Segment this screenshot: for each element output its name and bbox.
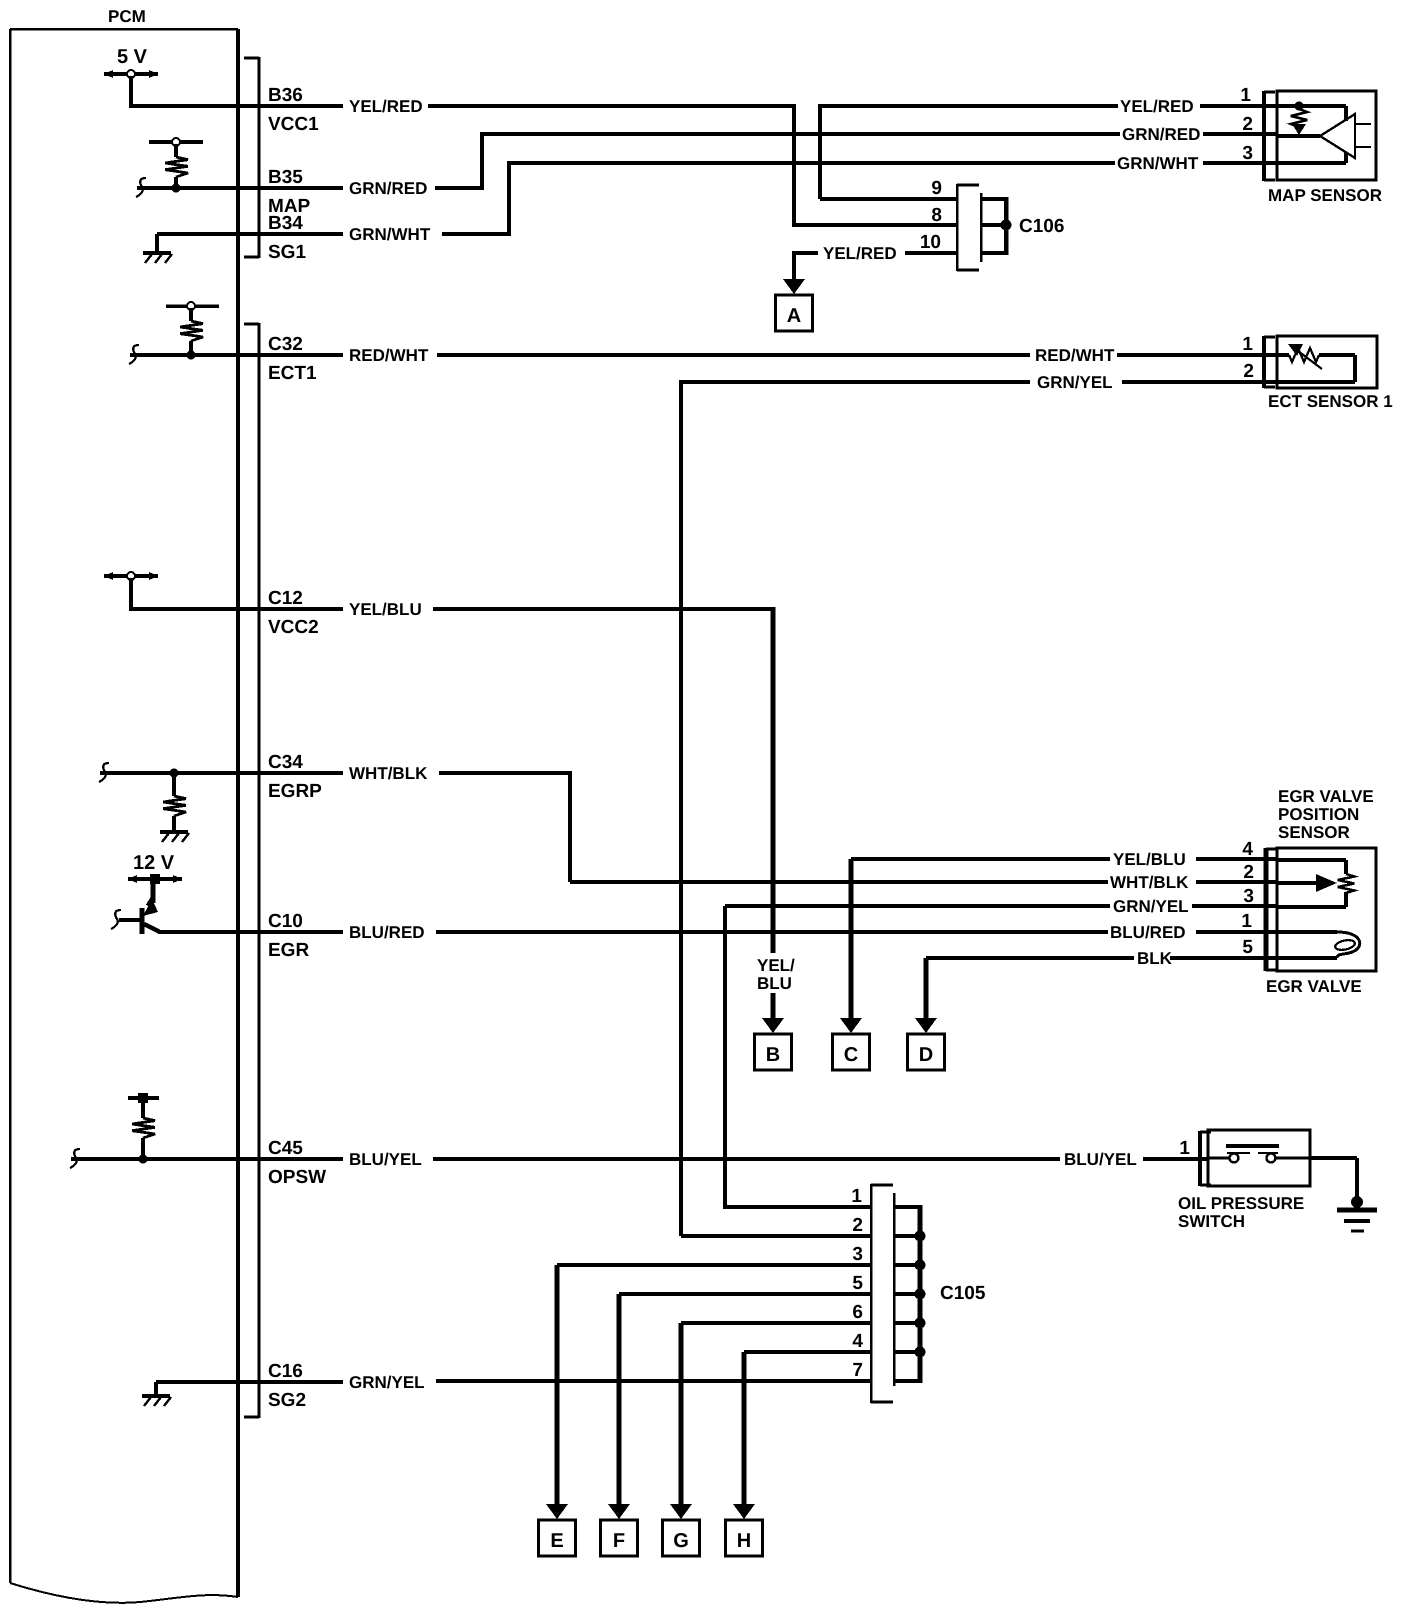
pin MAP label	[268, 196, 311, 217]
svg-text:BLU/RED: BLU/RED	[1110, 923, 1186, 942]
svg-text:1: 1	[851, 1186, 862, 1207]
wire C12 to PCM edge	[129, 578, 238, 609]
OIL PRESSURE SWITCH label	[1178, 1194, 1304, 1231]
svg-text:GRN/WHT: GRN/WHT	[1117, 154, 1199, 173]
wire continuation squiggle (C34)	[99, 763, 109, 782]
svg-text:1: 1	[1241, 911, 1252, 932]
pin C32 label	[268, 334, 303, 355]
wire GRN/WHT riser to MAP row	[509, 161, 1115, 236]
label BLU/YEL (switch)	[1064, 1150, 1137, 1169]
wire RED/WHT into ECT pin 1	[1117, 353, 1277, 357]
wire B36 YEL/RED to junction	[238, 104, 796, 108]
svg-text:RED/WHT: RED/WHT	[1035, 346, 1115, 365]
EGR pin 5 number	[1242, 937, 1253, 958]
svg-text:2: 2	[1243, 361, 1254, 382]
reference box G	[663, 1520, 700, 1556]
reference box B	[755, 1034, 792, 1070]
svg-text:POSITION: POSITION	[1278, 805, 1359, 824]
svg-text:ECT1: ECT1	[268, 363, 317, 384]
MAP pin 1 number	[1240, 85, 1251, 106]
ground (SG2)	[142, 1382, 238, 1406]
wire YEL/RED stub to A	[794, 251, 818, 280]
svg-text:GRN/YEL: GRN/YEL	[1037, 373, 1113, 392]
label GRN/WHT (B34)	[349, 225, 431, 244]
label C105	[940, 1283, 986, 1304]
ECT sensor box	[1277, 336, 1377, 388]
pin B35 label	[268, 167, 303, 188]
svg-text:SG2: SG2	[268, 1390, 306, 1411]
svg-text:3: 3	[852, 1244, 863, 1265]
svg-text:YEL/BLU: YEL/BLU	[349, 600, 422, 619]
svg-text:ECT SENSOR 1: ECT SENSOR 1	[1268, 392, 1393, 411]
svg-text:MAP SENSOR: MAP SENSOR	[1268, 186, 1382, 205]
wire switch to ground	[1310, 1158, 1357, 1198]
C106 pin 10 number	[920, 232, 941, 253]
label GRN/YEL (C16)	[349, 1373, 425, 1392]
label BLU/RED (C10)	[349, 923, 425, 942]
label WHT/BLK (C34)	[349, 764, 428, 783]
ECT pin 1 number	[1242, 334, 1253, 355]
svg-text:4: 4	[1242, 839, 1253, 860]
svg-text:12 V: 12 V	[133, 852, 175, 874]
label YEL/BLU (EGR pin 4)	[1113, 850, 1186, 869]
PCM box (outline with torn wavy bottom)	[10, 29, 238, 1603]
svg-text:4: 4	[852, 1331, 863, 1352]
wire YEL/RED down to C106 pin 8	[792, 104, 956, 225]
svg-text:SG1: SG1	[268, 242, 306, 263]
reference box A	[776, 295, 813, 331]
wire B34 GRN/WHT	[238, 232, 509, 236]
svg-text:C34: C34	[268, 752, 303, 773]
label GRN/RED (MAP pin 2)	[1122, 125, 1200, 144]
pin EGR label	[268, 940, 309, 961]
EGR pin 3 number	[1243, 886, 1254, 907]
pin VCC1 label	[268, 114, 319, 135]
svg-text:A: A	[787, 305, 801, 327]
wire continuation squiggle (transistor base)	[111, 910, 121, 929]
C105 pin 7 number	[852, 1360, 863, 1381]
svg-text:YEL/RED: YEL/RED	[823, 244, 897, 263]
MAP pin 3 number	[1242, 143, 1253, 164]
svg-text:EGR VALVE: EGR VALVE	[1278, 787, 1374, 806]
MAP sensor internal amplifier	[1277, 106, 1371, 163]
wire YEL/RED into MAP pin 1	[1200, 104, 1277, 108]
EGR valve position sensor potentiometer	[1277, 860, 1354, 907]
svg-text:H: H	[737, 1530, 751, 1552]
svg-text:BLK: BLK	[1137, 949, 1173, 968]
reference box D	[908, 1034, 945, 1070]
wire C45 BLU/YEL	[71, 1157, 1060, 1161]
wire GRN/WHT into MAP pin 3	[1203, 161, 1277, 165]
svg-text:3: 3	[1243, 886, 1254, 907]
label BLU/YEL (C45)	[349, 1150, 422, 1169]
C105 left-side pin wires	[436, 1207, 871, 1381]
wire BLU/YEL into oil pressure switch	[1143, 1157, 1208, 1161]
pull-up resistor (B35)	[149, 138, 203, 193]
pin C16 label	[268, 1361, 303, 1382]
EGR valve connector bracket	[1266, 848, 1277, 971]
node C106 pin 8 number	[931, 205, 942, 226]
connector C106 symbol	[957, 184, 981, 271]
pin C45 label	[268, 1138, 303, 1159]
wire WHT/BLK jog down	[570, 771, 1108, 882]
svg-text:E: E	[550, 1530, 563, 1552]
label YEL/RED (B36)	[349, 97, 423, 116]
svg-text:9: 9	[931, 178, 942, 199]
pull-up resistor (C45)	[128, 1093, 159, 1164]
arrowhead to A	[783, 279, 805, 294]
wire C16 GRN/YEL to C105 pin 7	[238, 1380, 343, 1384]
svg-text:C45: C45	[268, 1138, 303, 1159]
wire continuation squiggle (C45)	[70, 1149, 80, 1168]
svg-text:WHT/BLK: WHT/BLK	[349, 764, 428, 783]
pull-up resistor (C32)	[166, 302, 219, 360]
arrowhead to B	[762, 1018, 784, 1033]
wire C105 pin 4 with drop to H	[742, 1352, 747, 1509]
svg-text:PCM: PCM	[108, 7, 146, 26]
pin ECT1 label	[268, 363, 317, 384]
svg-text:5: 5	[1242, 937, 1253, 958]
arrowhead to D	[915, 1018, 937, 1033]
wire WHT/BLK into EGR pin 2	[1196, 880, 1277, 884]
svg-text:EGR VALVE: EGR VALVE	[1266, 977, 1362, 996]
svg-text:BLU/YEL: BLU/YEL	[1064, 1150, 1137, 1169]
pin SG1 label	[268, 242, 306, 263]
C106 pin stubs and bus	[981, 197, 1012, 255]
label BLU/RED (EGR pin 1)	[1110, 923, 1186, 942]
wire 5V to B36 pin	[129, 76, 238, 106]
svg-text:YEL/: YEL/	[757, 956, 795, 975]
MAP sensor connector bracket	[1264, 91, 1275, 181]
EGR VALVE label	[1266, 977, 1362, 996]
EGR pin 1 number	[1241, 911, 1252, 932]
svg-text:C: C	[844, 1044, 858, 1066]
wire YEL/BLU into EGR pin 4	[1196, 857, 1277, 861]
label YEL/RED (ref A)	[823, 244, 897, 263]
ECT sensor thermistor	[1277, 344, 1355, 382]
EGR valve box	[1277, 848, 1376, 971]
oil pressure switch pin 1 number	[1179, 1138, 1190, 1159]
C105 pin 6 number	[852, 1302, 863, 1323]
pin B34 label	[268, 213, 303, 234]
wire C105 pin 6 with drop to G	[679, 1323, 684, 1509]
svg-text:D: D	[919, 1044, 933, 1066]
wire into C106 pin 10	[905, 251, 956, 255]
EGR VALVE POSITION SENSOR label	[1278, 787, 1374, 842]
oil pressure switch box	[1208, 1130, 1310, 1186]
pin C12 label	[268, 588, 303, 609]
reference box E	[539, 1520, 576, 1556]
wire GRN/RED riser to MAP row	[482, 132, 1120, 190]
svg-text:2: 2	[852, 1215, 863, 1236]
arrowhead to E	[546, 1504, 568, 1519]
EGR pin 2 number	[1243, 862, 1254, 883]
ECT sensor connector bracket	[1264, 336, 1275, 388]
label YEL/BLU (C12)	[349, 600, 422, 619]
5V supply symbol	[104, 46, 158, 78]
label BLK (EGR pin 5)	[1137, 949, 1173, 968]
svg-text:OPSW: OPSW	[268, 1167, 326, 1188]
wire C105 pin 5 with drop to F	[617, 1294, 622, 1509]
label YEL/ BLU (ref B)	[757, 956, 795, 993]
C105 pin 2 number	[852, 1215, 863, 1236]
supply symbol (VCC2)	[104, 572, 158, 580]
PCM connector bracket B-rows	[244, 57, 259, 258]
connector C105 symbol	[871, 1184, 894, 1403]
svg-text:BLU/RED: BLU/RED	[349, 923, 425, 942]
wire continuation squiggle (B35)	[136, 178, 146, 197]
pin VCC2 label	[268, 617, 319, 638]
svg-text:SENSOR: SENSOR	[1278, 823, 1350, 842]
svg-text:B: B	[766, 1044, 780, 1066]
svg-text:GRN/WHT: GRN/WHT	[349, 225, 431, 244]
svg-text:1: 1	[1179, 1138, 1190, 1159]
svg-text:8: 8	[931, 205, 942, 226]
svg-text:C106: C106	[1019, 216, 1064, 237]
earth ground symbol	[1337, 1196, 1377, 1231]
svg-text:VCC2: VCC2	[268, 617, 319, 638]
oil pressure switch connector bracket	[1200, 1131, 1211, 1186]
C105 pin 1 number	[851, 1186, 862, 1207]
wire C106 pin 9 to MAP pin 1	[818, 104, 1118, 199]
wire GRN/RED into MAP pin 2	[1203, 132, 1277, 136]
MAP SENSOR label	[1268, 186, 1382, 205]
svg-text:B34: B34	[268, 213, 303, 234]
pin EGRP label	[268, 781, 322, 802]
svg-text:EGRP: EGRP	[268, 781, 322, 802]
C105 pin 5 number	[852, 1273, 863, 1294]
svg-text:RED/WHT: RED/WHT	[349, 346, 429, 365]
label GRN/YEL (ECT pin 2)	[1037, 373, 1113, 392]
svg-text:GRN/YEL: GRN/YEL	[349, 1373, 425, 1392]
C106 pin 9 number	[931, 178, 942, 199]
pin OPSW label	[268, 1167, 326, 1188]
svg-text:VCC1: VCC1	[268, 114, 319, 135]
svg-text:1: 1	[1242, 334, 1253, 355]
reference box C	[833, 1034, 870, 1070]
svg-text:C105: C105	[940, 1283, 986, 1304]
arrowhead to H	[733, 1504, 755, 1519]
pin C10 label	[268, 911, 303, 932]
svg-text:YEL/RED: YEL/RED	[349, 97, 423, 116]
svg-text:SWITCH: SWITCH	[1178, 1212, 1245, 1231]
label YEL/RED (MAP pin 1)	[1120, 97, 1194, 116]
svg-text:7: 7	[852, 1360, 863, 1381]
wire C10 BLU/RED	[158, 930, 1108, 934]
ECT pin 2 number	[1243, 361, 1254, 382]
svg-text:5 V: 5 V	[117, 46, 148, 68]
svg-text:GRN/RED: GRN/RED	[349, 179, 427, 198]
svg-text:C16: C16	[268, 1361, 303, 1382]
wire C105 pin 3 with drop to E	[555, 1265, 560, 1509]
svg-text:G: G	[673, 1530, 689, 1552]
pin C34 label	[268, 752, 303, 773]
EGR pin 4 number	[1242, 839, 1253, 860]
svg-text:YEL/RED: YEL/RED	[1120, 97, 1194, 116]
wire BLK into EGR pin 5	[1170, 956, 1277, 960]
svg-text:3: 3	[1242, 143, 1253, 164]
svg-text:C10: C10	[268, 911, 303, 932]
resistor to ground (C34)	[160, 769, 189, 843]
PCM connector bracket C-rows	[244, 323, 259, 1418]
MAP sensor internal resistor	[1277, 102, 1346, 136]
svg-text:GRN/YEL: GRN/YEL	[1113, 897, 1189, 916]
svg-text:1: 1	[1240, 85, 1251, 106]
wire YEL/BLU (EGR pin 4) with drop to C	[851, 859, 1110, 1023]
reference box H	[726, 1520, 763, 1556]
EGR valve solenoid coil	[1277, 932, 1360, 958]
MAP pin 2 number	[1242, 114, 1253, 135]
svg-text:EGR: EGR	[268, 940, 309, 961]
label GRN/YEL (EGR pin 3)	[1113, 897, 1189, 916]
wire C34 WHT/BLK	[100, 771, 570, 775]
svg-text:OIL PRESSURE: OIL PRESSURE	[1178, 1194, 1304, 1213]
label RED/WHT (ECT pin 1)	[1035, 346, 1115, 365]
svg-text:F: F	[613, 1530, 625, 1552]
svg-text:6: 6	[852, 1302, 863, 1323]
wire BLU/RED into EGR pin 1	[1196, 930, 1277, 934]
label GRN/RED (B35)	[349, 179, 427, 198]
wire B35 GRN/RED	[137, 186, 482, 190]
svg-text:WHT/BLK: WHT/BLK	[1110, 873, 1189, 892]
wire C12 YEL/BLU	[238, 607, 775, 611]
pin SG2 label	[268, 1390, 306, 1411]
svg-text:C12: C12	[268, 588, 303, 609]
label C106	[1019, 216, 1064, 237]
wire YEL/BLU drop to B	[771, 607, 776, 1023]
arrowhead to G	[670, 1504, 692, 1519]
arrowhead to C	[840, 1018, 862, 1033]
svg-text:BLU: BLU	[757, 974, 792, 993]
ground (SG1)	[143, 234, 238, 263]
svg-text:2: 2	[1242, 114, 1253, 135]
svg-text:5: 5	[852, 1273, 863, 1294]
transistor (EGR driver)	[119, 881, 159, 934]
wire BLK (EGR pin 5) with drop to D	[926, 958, 1134, 1023]
label WHT/BLK (EGR pin 2)	[1110, 873, 1189, 892]
svg-text:B35: B35	[268, 167, 303, 188]
MAP sensor box	[1277, 91, 1376, 180]
wire GRN/YEL into EGR pin 3	[1192, 904, 1277, 908]
svg-text:2: 2	[1243, 862, 1254, 883]
C105 pin 4 number	[852, 1331, 863, 1352]
wire GRN/YEL from ECT pin 2	[681, 380, 1277, 384]
wire GRN/YEL (EGR pin 3) to C105 pin 1	[725, 906, 1110, 1209]
wire C32 RED/WHT	[130, 353, 1030, 357]
label RED/WHT (C32)	[349, 346, 429, 365]
wire GRN/YEL drop to C105 pin 2	[679, 380, 683, 1236]
12V supply symbol	[128, 852, 182, 884]
svg-text:B36: B36	[268, 85, 303, 106]
arrowhead to F	[608, 1504, 630, 1519]
svg-text:10: 10	[920, 232, 941, 253]
pin B36 label	[268, 85, 303, 106]
oil pressure switch contacts	[1208, 1146, 1310, 1163]
ECT SENSOR 1 label	[1268, 392, 1393, 411]
PCM label	[108, 7, 146, 26]
svg-text:BLU/YEL: BLU/YEL	[349, 1150, 422, 1169]
svg-text:C32: C32	[268, 334, 303, 355]
C105 pin 3 number	[852, 1244, 863, 1265]
reference box F	[601, 1520, 638, 1556]
svg-text:YEL/BLU: YEL/BLU	[1113, 850, 1186, 869]
svg-text:GRN/RED: GRN/RED	[1122, 125, 1200, 144]
C105 pin stubs and bus	[894, 1205, 926, 1383]
label GRN/WHT (MAP pin 3)	[1117, 154, 1199, 173]
wire continuation squiggle (C32)	[129, 345, 139, 364]
